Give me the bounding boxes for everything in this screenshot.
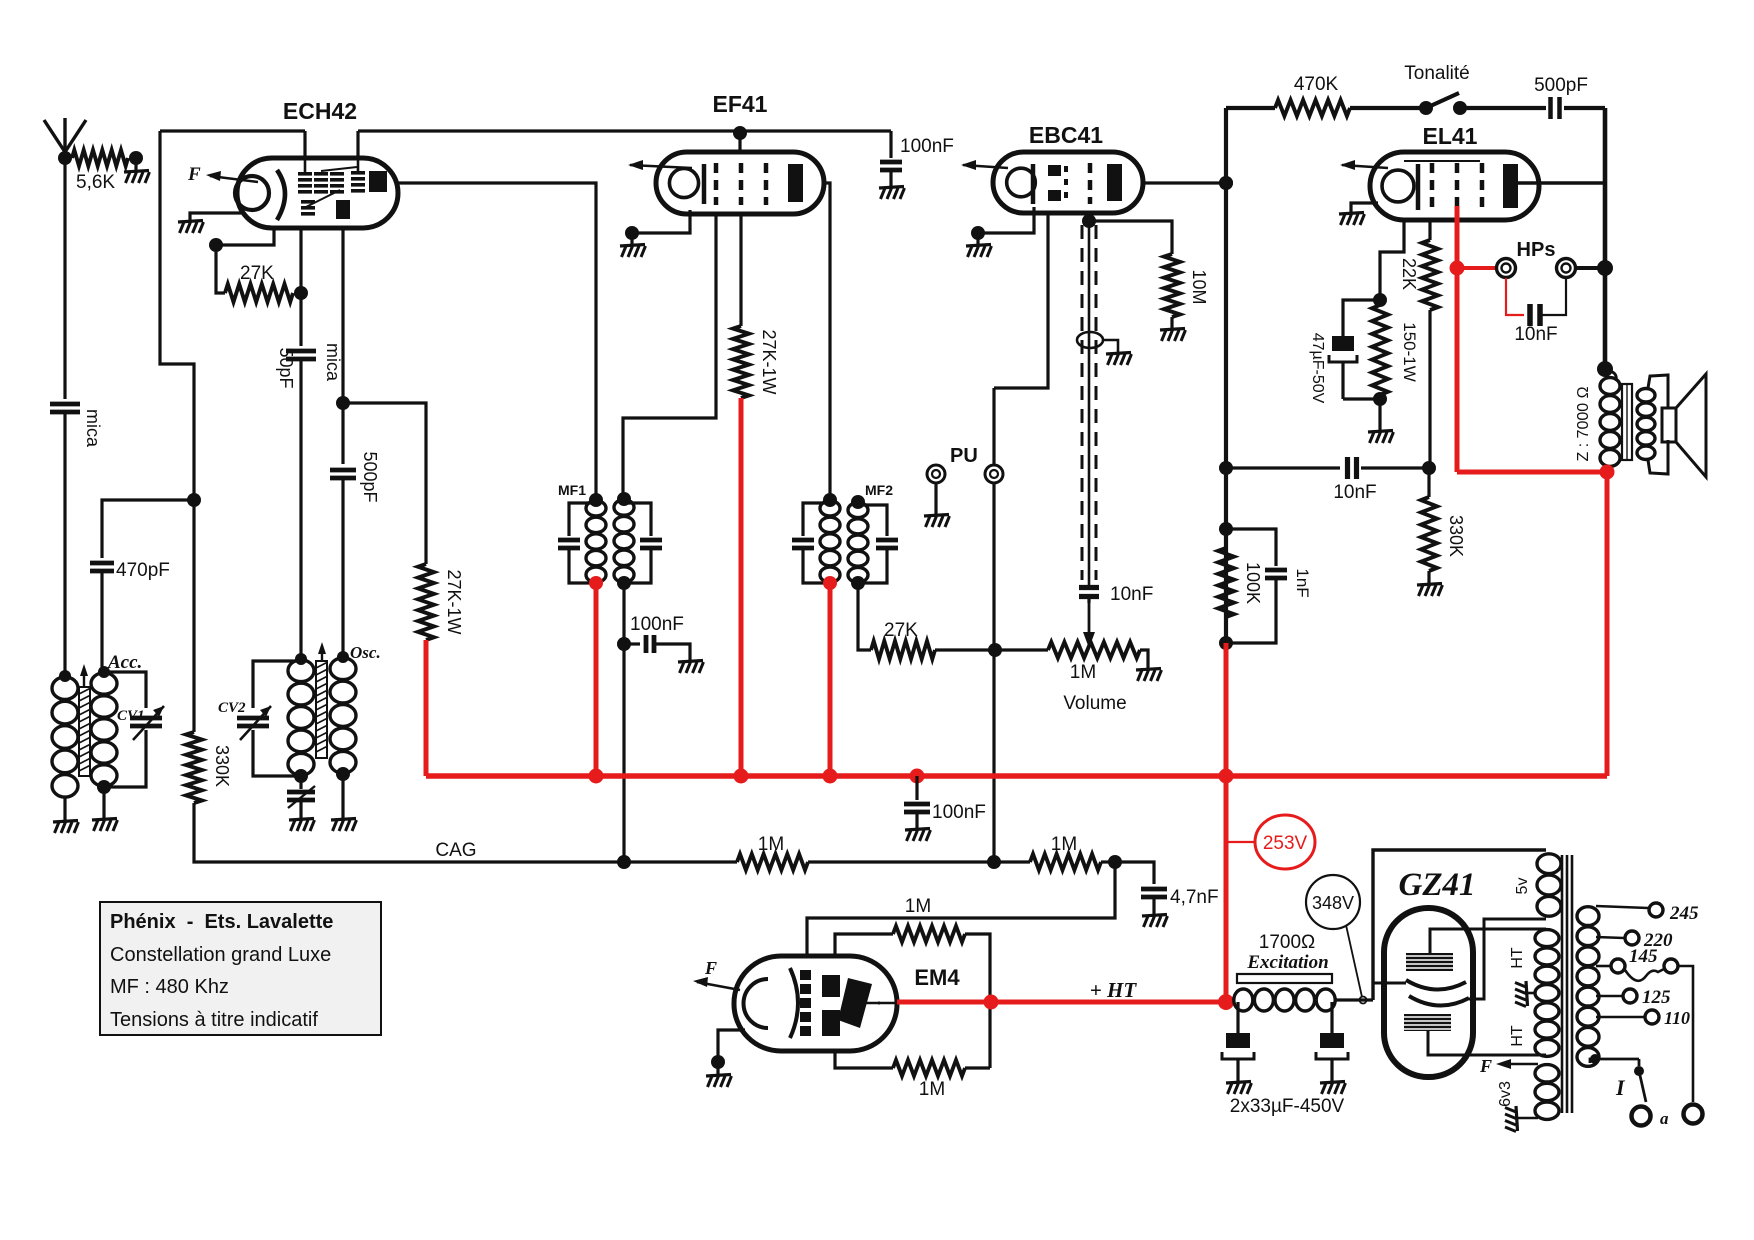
wire 27K to volume (935, 648, 995, 651)
wire screen down (1428, 310, 1431, 468)
capacitor 100nF screen (880, 131, 954, 188)
ground ECH42 (178, 221, 204, 234)
resistor 27K-1W EF41 (733, 326, 779, 398)
capacitor 500pF tone (1534, 75, 1605, 119)
svg-text:10nF: 10nF (1514, 324, 1557, 345)
resistor 1M em4 bottom (835, 1051, 990, 1100)
node red +HT rail (1218, 994, 1234, 1010)
core choke (1237, 974, 1332, 983)
svg-text:27K: 27K (240, 263, 274, 284)
svg-text:Tensions à titre indicatif: Tensions à titre indicatif (110, 1009, 318, 1031)
svg-text:F: F (1479, 1056, 1492, 1076)
resistor 1M em4 top (835, 926, 990, 1068)
label HT2 (1509, 1025, 1526, 1047)
coil HT (1535, 930, 1559, 1057)
wire red +HT (878, 1002, 1226, 1003)
svg-text:1M: 1M (1070, 662, 1096, 683)
speaker cone (1648, 374, 1706, 477)
coil osc plate (330, 658, 356, 773)
label EBC41 (1029, 122, 1103, 148)
svg-text:245: 245 (1669, 903, 1699, 924)
wire selector down (1678, 966, 1693, 1102)
wire MF2 sec down (858, 583, 871, 650)
ground Acc primary (53, 821, 79, 834)
arrow F EM4 (693, 958, 740, 990)
ground 100nF avc (678, 661, 704, 674)
info box (100, 902, 381, 1035)
tap 145 (1596, 946, 1658, 973)
tap 110 (1596, 1008, 1690, 1028)
switch Tonalite (1404, 63, 1470, 115)
coil MF1 secondary (614, 500, 634, 583)
arrow EL41 (1340, 160, 1388, 170)
label GZ41 (1399, 867, 1476, 903)
svg-text:Osc.: Osc. (350, 643, 381, 662)
ground antenna resistor (124, 171, 150, 184)
capacitor CV2 (218, 700, 271, 740)
svg-text:F: F (704, 958, 717, 978)
wire 330K ground (1427, 571, 1430, 585)
resistor 5,6K (72, 150, 128, 193)
resistor 1M avc1 (737, 834, 808, 870)
trimmer osc (287, 776, 315, 820)
svg-text:253V: 253V (1263, 833, 1308, 854)
frame MF2 right (858, 505, 898, 583)
tube ECH42 (235, 158, 398, 228)
capacitor 10nF coupling (1079, 584, 1153, 605)
svg-text:+ HT: + HT (1090, 978, 1138, 1002)
ground EL41 heater (1339, 213, 1365, 226)
node EBC41 cathode (971, 226, 985, 240)
wire GZ41 plate top (1430, 929, 1546, 953)
capacitor 500pF osc (330, 403, 380, 657)
wire Acc sec bottom ground (102, 787, 105, 820)
wire EBC41 plate (1143, 181, 1226, 184)
node rail 100K bottom (1219, 636, 1233, 650)
ground 100nF screen (879, 187, 905, 200)
node ECH42 grid (209, 238, 223, 252)
wire ECH42 cathode to ground (190, 213, 243, 222)
node ECH42 g2 (336, 396, 350, 410)
tube EL41 (1370, 152, 1539, 220)
node screen 10nF (1422, 461, 1436, 475)
tap 245 (1596, 903, 1699, 924)
wire Acc sec top to CV1 (104, 672, 146, 708)
wire EL41 plate (1516, 181, 1605, 185)
label 348V (1306, 875, 1362, 997)
svg-text:CV2: CV2 (218, 700, 246, 716)
label 1700 (1246, 932, 1328, 973)
node MF2 sec bottom (851, 576, 865, 590)
svg-text:I: I (1615, 1075, 1626, 1100)
node osc grid top (295, 653, 307, 665)
coil Acc primary (52, 677, 78, 822)
ground EL41 cathode (1368, 431, 1394, 444)
wire EBC41 cathode (980, 207, 1034, 233)
svg-text:Volume: Volume (1063, 693, 1126, 714)
wire red MF2 (828, 583, 833, 776)
svg-text:mica: mica (323, 343, 343, 382)
wire EBC41 grid (994, 213, 1048, 388)
wire CV1 to Acc bottom (104, 730, 146, 787)
tube GZ41 (1384, 908, 1473, 1077)
wire red MF1 (594, 583, 599, 776)
core speaker (1622, 384, 1632, 460)
coil MF1 primary (586, 501, 606, 583)
resistor 330K el41 (1421, 468, 1466, 571)
capacitor CV1 (117, 706, 164, 740)
node 5,6K right (129, 151, 143, 165)
plate GZ41 bottom (1404, 1014, 1451, 1031)
svg-text:6v3: 6v3 (1497, 1081, 1514, 1107)
label volume (1063, 662, 1126, 714)
label HPs (1517, 239, 1556, 261)
svg-text:100nF: 100nF (630, 614, 684, 635)
shaft oval (1077, 332, 1118, 354)
ground PU (924, 515, 950, 528)
wire red EF41 screen (739, 398, 744, 776)
svg-text:10nF: 10nF (1333, 482, 1376, 503)
label MF2 (865, 482, 893, 498)
node secondary bottom (1590, 1054, 1600, 1064)
capacitor 33uF right (1316, 1002, 1348, 1083)
capacitor mica antenna (50, 404, 103, 676)
wire red rail down (1224, 643, 1229, 776)
wire EL41 screen (1428, 220, 1431, 240)
resistor 330K left (186, 732, 232, 803)
wiper arrow (1083, 603, 1095, 648)
capacitor 4,7nF (1115, 862, 1219, 916)
node MF2 pri top (823, 493, 837, 507)
svg-text:PU: PU (950, 445, 978, 467)
resistor 1M avc2 (1030, 834, 1101, 870)
wire red bus (426, 773, 1607, 779)
ground HT center (1515, 981, 1535, 1007)
wire EF41 plate to MF2 (824, 183, 830, 500)
terminal PU left (927, 465, 945, 483)
wire red EL41 cathode tap (1455, 206, 1460, 268)
svg-text:5v: 5v (1514, 878, 1531, 895)
node MF2 sec top (851, 495, 865, 509)
node Acc pri top (59, 670, 71, 682)
node EF41 grid top (733, 126, 747, 140)
wire GZ41 filament left (1373, 982, 1406, 985)
ground shaft (1106, 353, 1132, 366)
wire EL41 heater ground (1351, 203, 1378, 214)
svg-text:GZ41: GZ41 (1399, 867, 1476, 903)
terminal mains right (1684, 1105, 1703, 1124)
wire EM4 grid (807, 862, 1115, 956)
ground 33uF right (1320, 1082, 1346, 1095)
wire 27K to tube pin (299, 226, 302, 293)
ground EM4 (706, 1062, 732, 1087)
svg-text:4,7nF: 4,7nF (1170, 887, 1219, 908)
potentiometer 1M volume (995, 642, 1148, 670)
wire red speaker return (1457, 472, 1607, 776)
svg-text:CV1: CV1 (117, 708, 145, 724)
wire GZ41 plate bottom (1428, 1031, 1546, 1055)
capacitor 100nF avc (624, 614, 690, 662)
frame MF1 right (624, 503, 662, 583)
coil choke (1234, 989, 1335, 1011)
svg-text:348V: 348V (1312, 893, 1354, 913)
node 27K right (294, 286, 308, 300)
wire red osc feed (424, 640, 429, 776)
label MF1 (558, 482, 586, 498)
node MF1 sec top (617, 492, 631, 506)
selector squiggle (1625, 959, 1678, 981)
svg-text:27K-1W: 27K-1W (759, 329, 779, 394)
wire rail EBC41 (1224, 108, 1228, 643)
svg-text:F: F (187, 164, 201, 185)
node MF1 pri top (589, 493, 603, 507)
capacitor 470pF (90, 500, 194, 672)
label ECH42 (283, 98, 357, 124)
arrow EBC41 (961, 160, 1008, 170)
node osc plate bottom (336, 767, 350, 781)
capacitor 50pF mica (276, 293, 343, 659)
resistor 100K (1218, 529, 1263, 617)
wire ECH42 g2 down (341, 226, 344, 403)
ground 100nF bus (905, 829, 931, 842)
node rail 10nF (1219, 461, 1233, 475)
svg-text:1M: 1M (919, 1079, 945, 1100)
wire EF41 grid stem (738, 133, 741, 152)
node EBC41 diode (1082, 214, 1096, 228)
ground 330K (1417, 584, 1443, 597)
svg-text:a: a (1660, 1109, 1669, 1128)
tube EM4 (734, 956, 897, 1051)
label 2x33uF (1230, 1096, 1345, 1117)
svg-text:145: 145 (1629, 946, 1658, 967)
wire ECH42 plate to MF1 (398, 183, 596, 500)
svg-text:500pF: 500pF (1534, 75, 1588, 96)
tap 220 (1596, 930, 1673, 951)
wire GZ41 filament right (1469, 919, 1546, 999)
coil 5V (1514, 854, 1561, 916)
svg-text:110: 110 (1664, 1008, 1690, 1028)
svg-text:47µF-50V: 47µF-50V (1309, 333, 1326, 404)
terminal mains left (1632, 1107, 1651, 1126)
node red bus MF2 (823, 769, 838, 784)
svg-text:22K: 22K (1399, 258, 1419, 290)
terminal HPs right (1557, 259, 1576, 278)
arrow EF41 (628, 160, 692, 170)
capacitor 10nF HPs (1506, 278, 1566, 345)
tap 125 (1596, 987, 1671, 1008)
antenna (44, 118, 86, 158)
node rail plate (1219, 176, 1233, 190)
node 470pF junction (187, 493, 201, 507)
node CAG volume (987, 855, 1001, 869)
svg-text:500pF: 500pF (360, 451, 380, 502)
label CAG (435, 840, 476, 861)
svg-text:ECH42: ECH42 (283, 98, 357, 124)
node red bus 100nF (910, 769, 925, 784)
tube EF41 (656, 152, 824, 214)
ground 4,7nF (1142, 915, 1168, 928)
wire CV2 to osc bottom (253, 730, 301, 776)
wire 6v3 ground (1505, 1106, 1538, 1132)
svg-text:50pF: 50pF (276, 347, 296, 388)
resistor 150-1W (1372, 305, 1419, 395)
ground volume (1136, 669, 1162, 682)
wire MF1 sec down (622, 583, 625, 862)
capacitor 10nF feedback (1226, 457, 1429, 503)
wire red to HPs (1457, 266, 1497, 270)
node EM4 cathode (711, 1055, 725, 1069)
wire CAG 1 (620, 860, 737, 863)
svg-text:EBC41: EBC41 (1029, 122, 1103, 148)
svg-text:470pF: 470pF (116, 560, 170, 581)
node cathode bottom (1373, 392, 1387, 406)
node volume top (988, 643, 1002, 657)
svg-text:EL41: EL41 (1423, 123, 1478, 149)
arrow F ECH42 (187, 164, 258, 185)
svg-text:Constellation grand Luxe: Constellation grand Luxe (110, 944, 331, 966)
svg-text:10M: 10M (1189, 269, 1209, 304)
svg-text:125: 125 (1642, 987, 1671, 1008)
shaft dashed (1082, 221, 1096, 585)
svg-text:Phénix - Ets. Lavalette: Phénix - Ets. Lavalette (110, 911, 333, 933)
svg-text:330K: 330K (1446, 515, 1466, 557)
svg-text:330K: 330K (212, 745, 232, 787)
svg-text:27K-1W: 27K-1W (444, 569, 464, 634)
coil MF2 secondary (848, 503, 868, 583)
node red EM4 (984, 995, 999, 1010)
svg-text:1M: 1M (1051, 834, 1077, 855)
core power (1562, 855, 1572, 1113)
capacitor 47uF (1309, 300, 1380, 404)
svg-text:Excitation: Excitation (1246, 952, 1328, 973)
wire 470K feed (1226, 106, 1275, 110)
node 100nF tap (617, 637, 631, 651)
svg-text:1nF: 1nF (1293, 568, 1312, 597)
wire 10M ground (1170, 317, 1173, 330)
node Acc sec top (98, 666, 110, 678)
node red bus EF41 (734, 769, 749, 784)
svg-text:150-1W: 150-1W (1400, 322, 1419, 382)
wire diode to 10M (1089, 221, 1172, 254)
label 253V (1226, 815, 1315, 869)
svg-text:CAG: CAG (435, 840, 476, 861)
core Acc (79, 664, 90, 776)
coil 6v3 (1497, 1065, 1559, 1120)
node osc grid bottom (294, 769, 308, 783)
tube EBC41 (993, 152, 1143, 213)
wire CAG 3 (1101, 860, 1115, 863)
node EF41 cathode (625, 226, 639, 240)
wire osc plate ground (341, 774, 344, 820)
svg-text:MF : 480 Khz: MF : 480 Khz (110, 976, 229, 998)
ground osc grid (289, 819, 315, 832)
svg-text:EF41: EF41 (713, 91, 768, 117)
ground EBC41 (966, 233, 992, 257)
svg-text:MF1: MF1 (558, 482, 586, 498)
wire osc to CV2 (253, 661, 301, 708)
wire left vertical (160, 131, 194, 732)
node osc plate top (337, 651, 349, 663)
terminal PU right (985, 465, 1003, 483)
filament GZ41 (1406, 980, 1469, 1006)
node CAG right (1108, 855, 1122, 869)
coil MF2 primary (820, 501, 840, 583)
wire PU right vertical (992, 388, 995, 862)
svg-text:1M: 1M (905, 896, 931, 917)
label HT1 (1509, 947, 1526, 969)
terminal HPs left (1497, 259, 1516, 278)
wire red EL41 long (1455, 268, 1460, 472)
node rail speaker (1597, 361, 1613, 377)
svg-text:100nF: 100nF (900, 136, 954, 157)
coil speaker secondary (1637, 389, 1655, 460)
svg-text:470K: 470K (1294, 74, 1339, 95)
plate GZ41 top (1406, 953, 1453, 971)
switch mains (1615, 1059, 1646, 1102)
ground 10M (1160, 329, 1186, 342)
svg-text:Tonalité: Tonalité (1404, 63, 1470, 84)
ground 33uF left (1226, 1082, 1252, 1095)
node MF1 pri bottom red (589, 576, 603, 590)
wire rail right top (1603, 108, 1608, 369)
wire EF41 g1 to MF1 (623, 214, 716, 499)
coil Acc secondary (91, 673, 117, 786)
label speaker Z (1575, 386, 1592, 461)
resistor 22K (1399, 240, 1438, 310)
label Acc (107, 652, 142, 673)
coil speaker primary (1600, 371, 1620, 466)
svg-text:mica: mica (83, 409, 103, 448)
wire EF41 screen (739, 214, 742, 326)
svg-text:HPs: HPs (1517, 239, 1556, 261)
frame MF2 left (792, 503, 830, 583)
capacitor 33uF left (1222, 1002, 1254, 1083)
wire 330K to CAG (194, 803, 620, 862)
node Acc sec bottom (97, 780, 111, 794)
node cathode junction (1373, 293, 1387, 307)
arrow F heater (1479, 1056, 1538, 1076)
node MF2 pri bottom red (823, 576, 837, 590)
wire CAG 2 (808, 860, 1030, 863)
node antenna (58, 151, 72, 165)
svg-text:5,6K: 5,6K (76, 172, 115, 193)
core osc (316, 642, 327, 758)
svg-text:MF2: MF2 (865, 482, 893, 498)
label EM4 (914, 965, 960, 990)
wire GZ41 box (1373, 850, 1546, 1000)
wire antenna down (63, 158, 66, 399)
node red bus rail (1219, 769, 1234, 784)
capacitor 1nF (1226, 529, 1312, 643)
wire red rail to HT (1224, 776, 1229, 1002)
frame MF1 left (558, 503, 596, 583)
label EF41 (713, 91, 768, 117)
node red bus MF1 (589, 769, 604, 784)
label EL41 (1423, 123, 1478, 149)
wire EM4 cathode (718, 1030, 745, 1062)
node rail HPs (1597, 260, 1613, 276)
coil secondary mains (1577, 907, 1599, 1067)
wire switch to 500pF (1460, 106, 1546, 110)
svg-text:100nF: 100nF (932, 802, 986, 823)
node EBC41 plate (1219, 176, 1233, 190)
label 1M grid (905, 896, 931, 917)
svg-text:Z : 7000 Ω: Z : 7000 Ω (1575, 386, 1592, 461)
wire choke to GZ41 (1336, 997, 1373, 1004)
resistor 27K det (871, 620, 935, 659)
svg-text:1700Ω: 1700Ω (1259, 932, 1315, 953)
svg-text:10nF: 10nF (1110, 584, 1153, 605)
